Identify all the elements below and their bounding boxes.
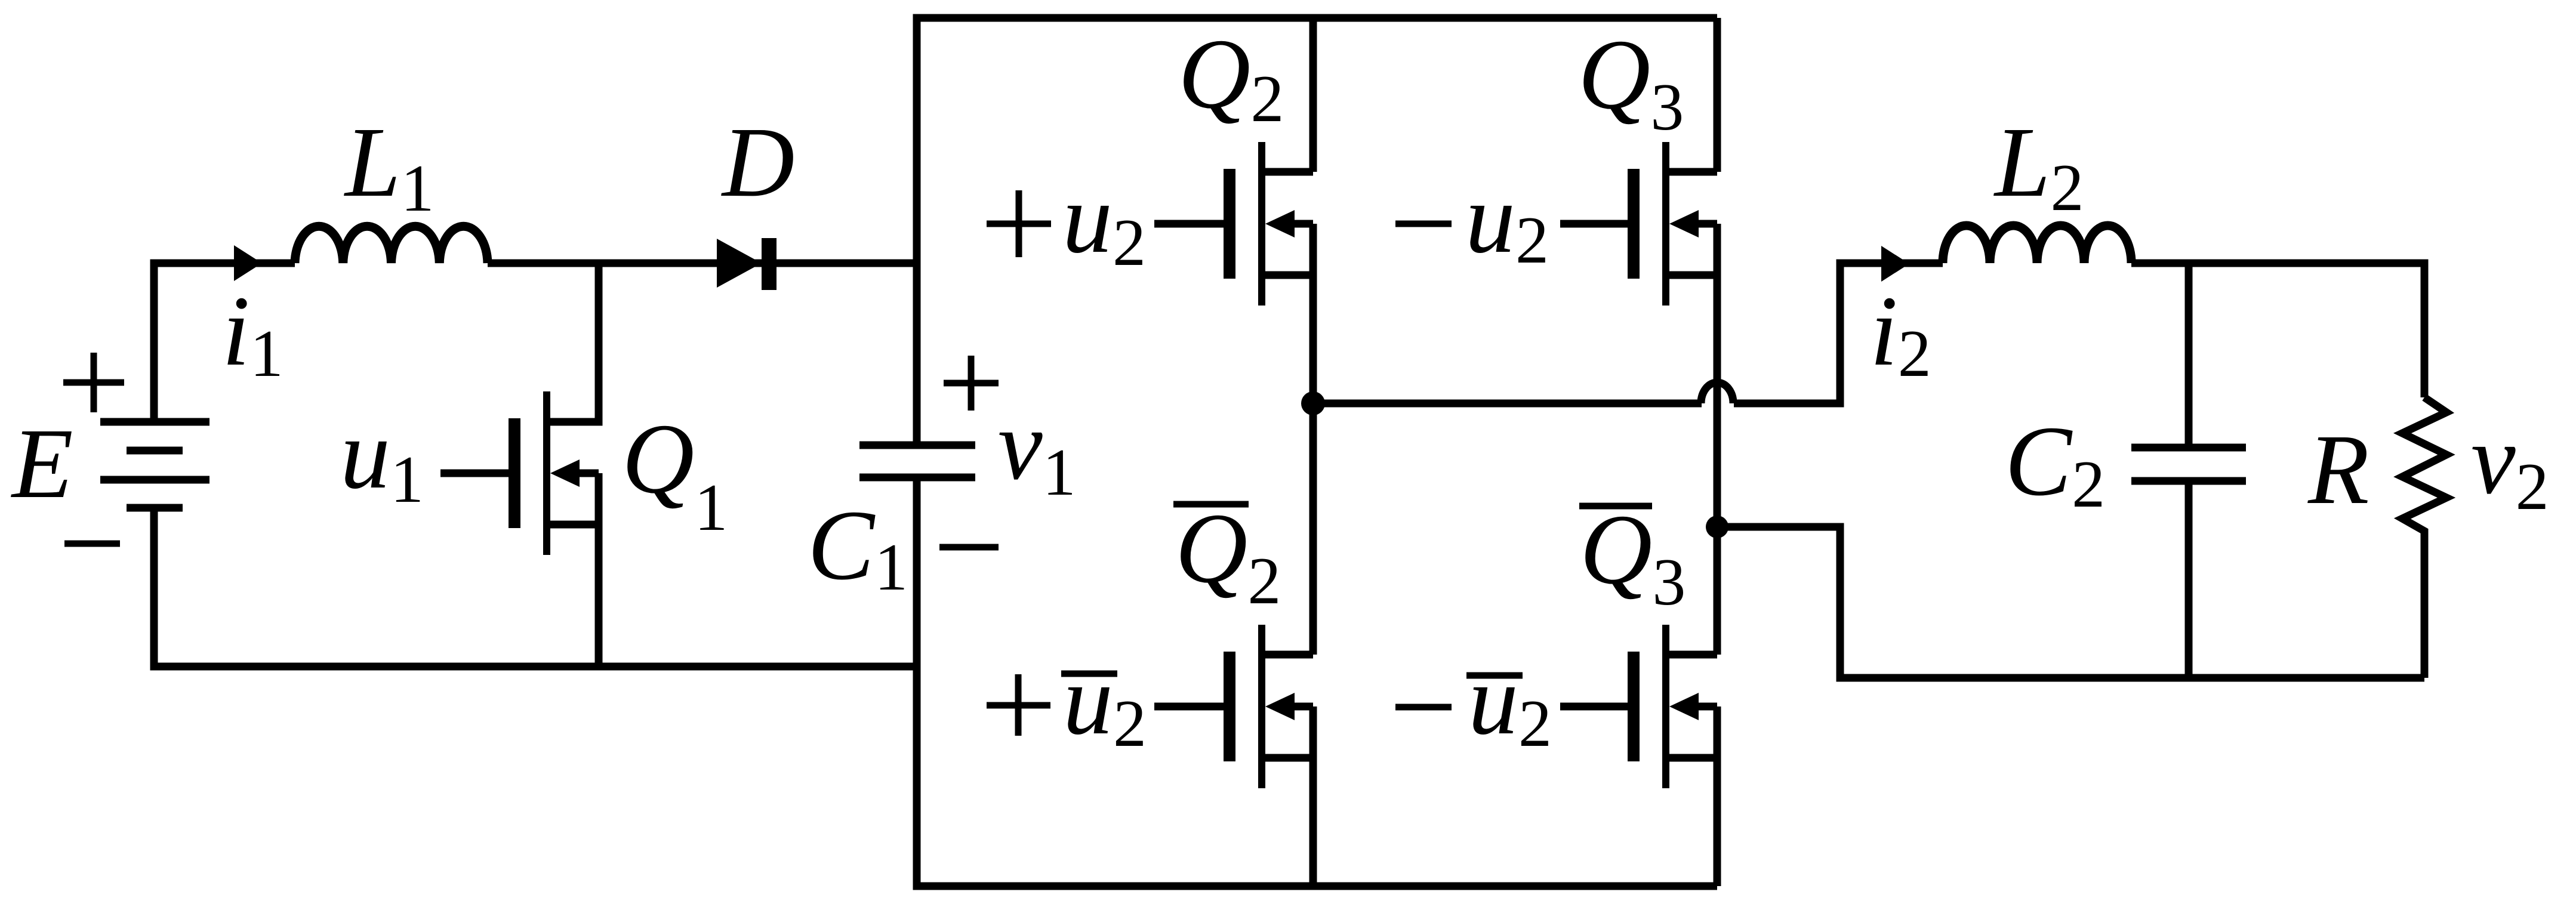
- transistor Q1 drain stub: [547, 263, 599, 422]
- transistor Q1 gate bar: [509, 418, 520, 528]
- bridge left edge and top rail: [917, 18, 1717, 445]
- overbar of +u2bar: [1061, 671, 1117, 677]
- transistor Q2bar gate lead: [1154, 703, 1224, 711]
- svg-text:Q2: Q2: [1178, 18, 1284, 136]
- overbar of Q3bar label: [1579, 503, 1652, 510]
- wire L2 to R top: [2131, 263, 2424, 397]
- svg-text:L2: L2: [1993, 107, 2084, 225]
- transistor Q3 channel: [1662, 142, 1669, 306]
- transistor Q3 source stub: [1666, 271, 1717, 279]
- transistor Q2 gate lead: [1154, 220, 1224, 228]
- svg-text:v1: v1: [998, 390, 1076, 510]
- svg-text:u1: u1: [340, 399, 424, 517]
- transistor Q3bar gate lead: [1560, 703, 1628, 711]
- svg-text:i2: i2: [1870, 276, 1931, 391]
- svg-text:Q1: Q1: [622, 403, 728, 545]
- wire C2 bottom lead: [2185, 481, 2193, 678]
- svg-text:R: R: [2307, 414, 2369, 525]
- svg-text:Q3: Q3: [1578, 19, 1684, 144]
- diode D cathode bar: [762, 238, 777, 290]
- svg-text:D: D: [721, 107, 794, 218]
- svg-text:u2: u2: [1465, 163, 1549, 277]
- battery minus sign: [64, 541, 120, 547]
- capacitor C1 plates: [859, 442, 975, 449]
- resistor R zigzag: [2402, 397, 2446, 678]
- wire C2 top lead: [2185, 263, 2193, 448]
- transistor Q2 channel: [1258, 142, 1265, 306]
- wire node B to output bottom: [1717, 527, 2424, 678]
- transistor Q2 body arrow: [1265, 210, 1295, 237]
- transistor Q2 drain stub: [1262, 168, 1313, 176]
- battery E bars: [100, 418, 209, 426]
- left leg middle: [1309, 224, 1317, 655]
- transistor Q2bar source stub: [1262, 754, 1313, 762]
- right leg lower: [1714, 706, 1721, 886]
- transistor Q2 body stub: [1287, 220, 1313, 228]
- node B dot: [1706, 516, 1728, 538]
- transistor Q2 source stub: [1262, 271, 1313, 279]
- plus of +u2: [987, 190, 1051, 257]
- transistor Q2 gate bar: [1224, 169, 1235, 279]
- inductor L1: [295, 226, 488, 263]
- inductor L2: [1943, 226, 2131, 263]
- transistor Q3bar source stub: [1666, 754, 1717, 762]
- transistor Q1 body arrow: [550, 459, 580, 487]
- svg-text:v2: v2: [2471, 404, 2549, 524]
- diode D triangle: [717, 239, 762, 288]
- right leg upper: [1714, 18, 1721, 172]
- transistor Q1 body stub: [572, 470, 599, 477]
- svg-text:Q2: Q2: [1175, 493, 1281, 618]
- svg-text:C1: C1: [808, 490, 908, 604]
- v1 minus sign: [939, 544, 999, 551]
- svg-text:u2: u2: [1063, 644, 1147, 761]
- overbar of -u2bar: [1466, 672, 1523, 679]
- battery plus sign: [63, 353, 124, 412]
- wire hop to L2 riser: [1734, 263, 1943, 403]
- transistor Q3bar gate bar: [1628, 652, 1640, 761]
- transistor Q1 gate lead: [440, 470, 509, 477]
- current arrow i2: [1881, 246, 1909, 282]
- plus of +u2bar: [987, 674, 1050, 736]
- left leg upper: [1309, 18, 1317, 172]
- node A dot: [1301, 391, 1325, 415]
- wire hop over right leg: [1701, 382, 1733, 403]
- svg-text:Q3: Q3: [1580, 494, 1686, 619]
- transistor Q1 source stub and lead: [547, 473, 599, 667]
- transistor Q3 body stub: [1691, 220, 1717, 228]
- transistor Q3bar channel: [1662, 625, 1669, 788]
- transistor Q3 body arrow: [1669, 210, 1699, 237]
- svg-text:L1: L1: [344, 107, 434, 226]
- transistor Q2bar drain stub: [1262, 651, 1313, 659]
- wire node A to hop: [1313, 400, 1702, 408]
- transistor Q3 drain stub: [1666, 168, 1717, 176]
- transistor Q1 channel: [543, 391, 550, 555]
- svg-text:C2: C2: [2005, 406, 2105, 522]
- current arrow i1: [234, 245, 262, 281]
- minus of -u2: [1395, 221, 1452, 227]
- wire battery top lead and top wire to bridge: [154, 263, 295, 422]
- svg-text:u2: u2: [1062, 163, 1146, 280]
- transistor Q3 gate lead: [1560, 220, 1628, 228]
- wire bottom left loop: [154, 508, 917, 667]
- svg-text:i1: i1: [222, 276, 284, 391]
- wire L1 to bridge left edge: [488, 260, 917, 267]
- overbar of Q2bar label: [1173, 501, 1249, 508]
- svg-text:u2: u2: [1468, 644, 1552, 761]
- capacitor C2 plates: [2131, 444, 2246, 452]
- svg-text:E: E: [11, 408, 73, 519]
- transistor Q3bar body arrow: [1669, 693, 1699, 720]
- transistor Q2bar gate bar: [1224, 652, 1235, 761]
- transistor Q3bar body stub: [1691, 703, 1717, 711]
- v1 plus sign: [944, 356, 999, 411]
- minus of -u2bar: [1395, 704, 1452, 711]
- transistor Q2bar channel: [1258, 625, 1265, 788]
- right leg middle: [1714, 224, 1721, 655]
- bridge left edge lower and bottom rail: [917, 477, 1717, 886]
- left leg lower: [1309, 706, 1317, 886]
- transistor Q3 gate bar: [1628, 169, 1640, 279]
- transistor Q2bar body stub: [1287, 703, 1313, 711]
- transistor Q3bar drain stub: [1666, 651, 1717, 659]
- transistor Q2bar body arrow: [1265, 693, 1295, 720]
